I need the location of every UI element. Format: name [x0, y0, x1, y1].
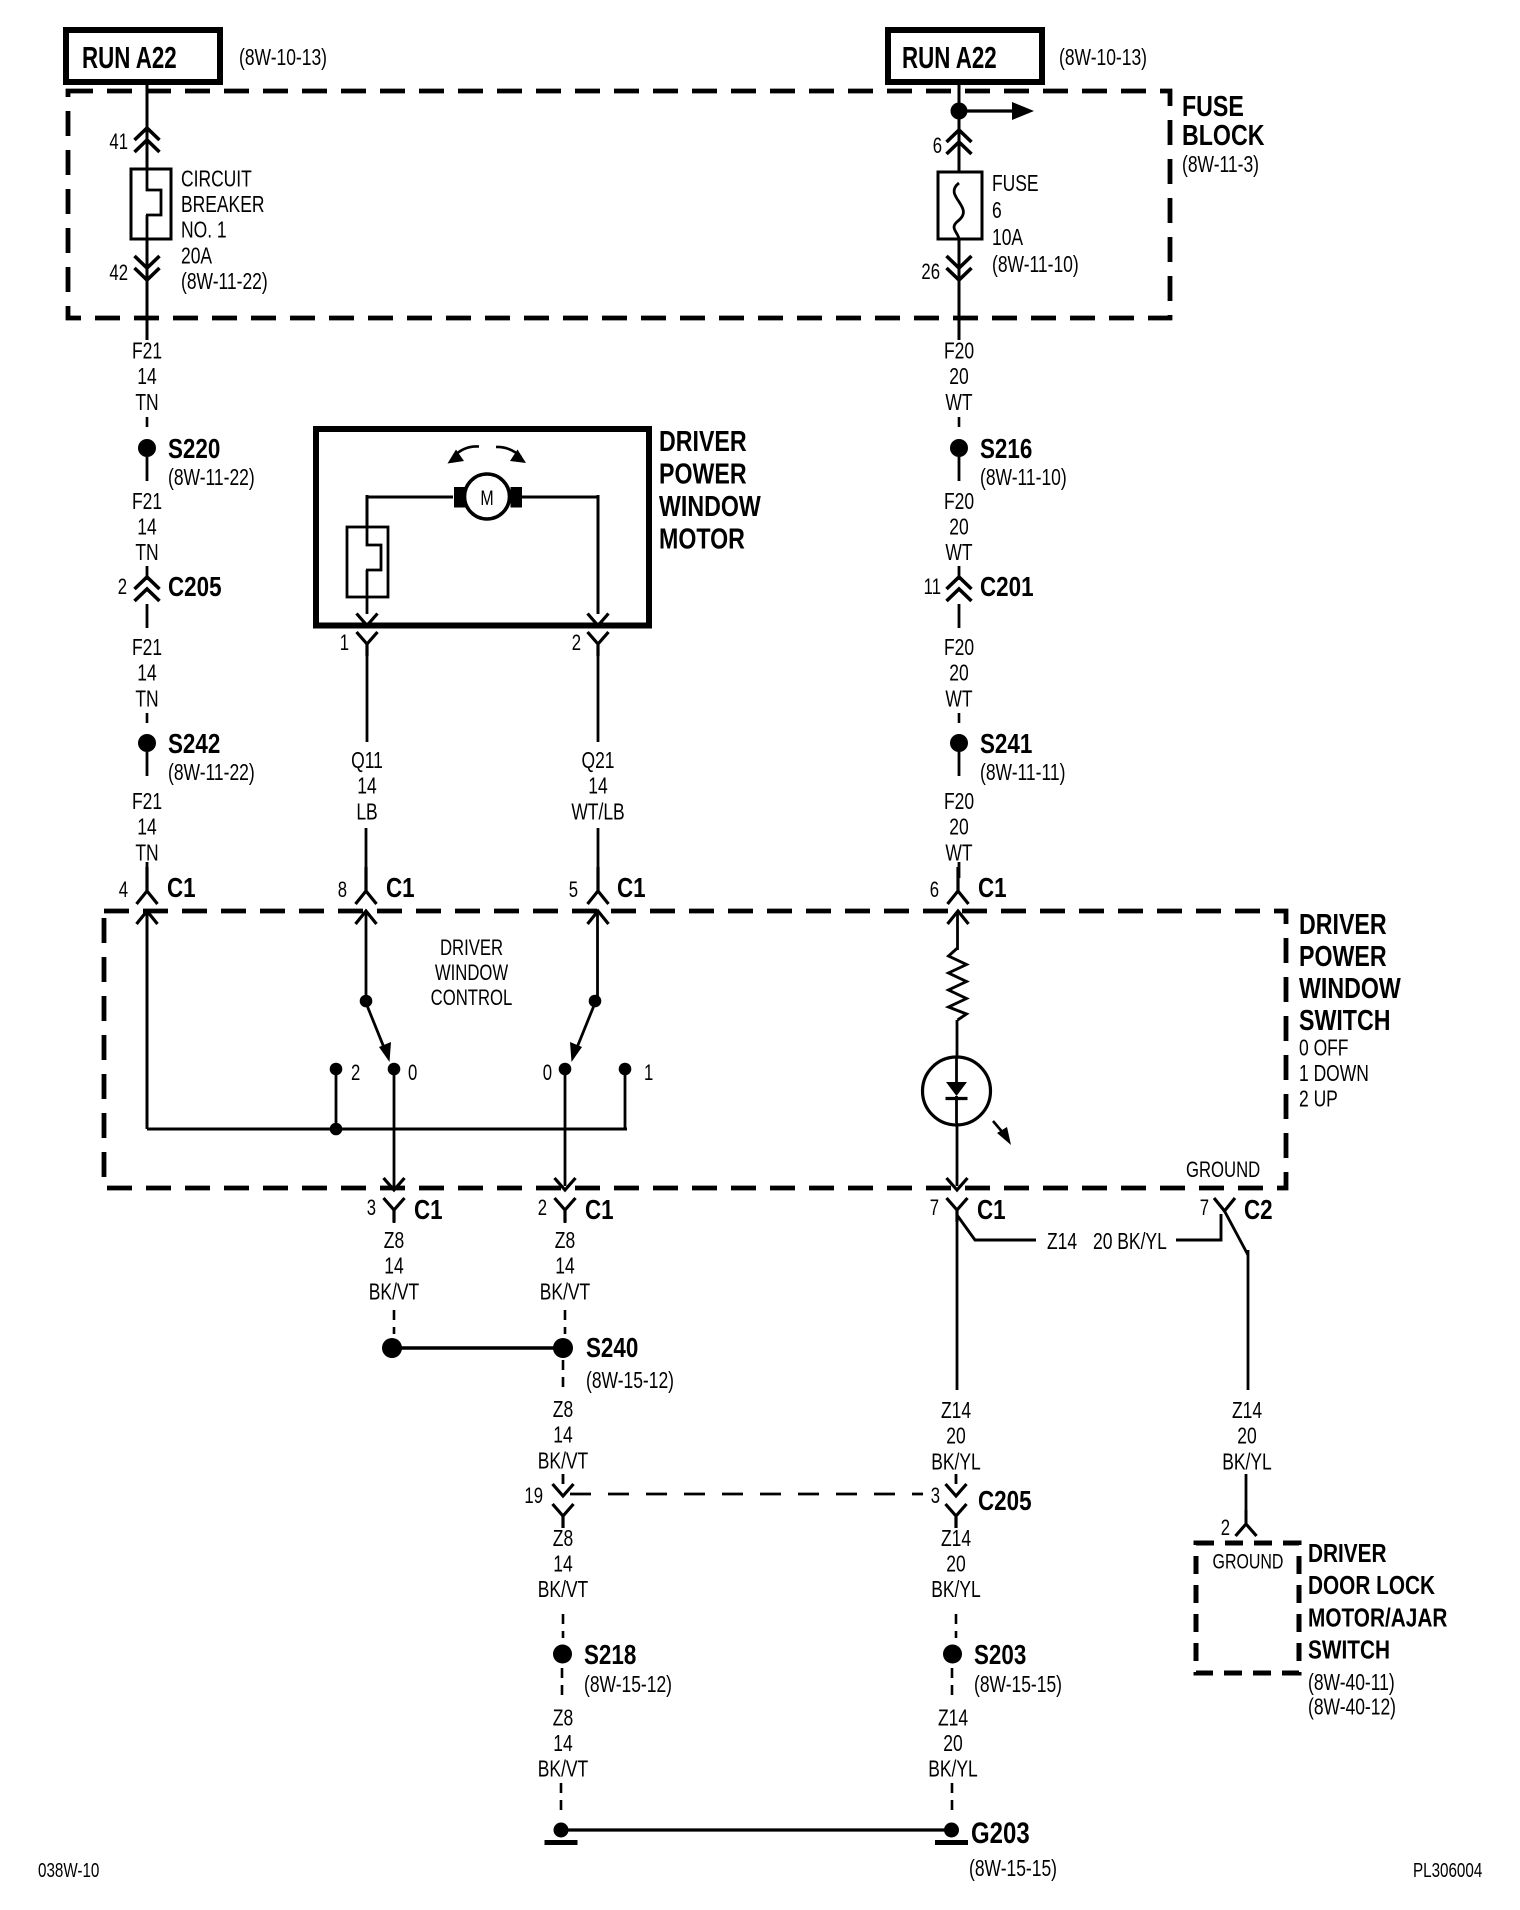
svg-text:F20: F20	[944, 339, 974, 364]
motor pin 1 arrowhead	[357, 614, 378, 626]
svg-text:S242: S242	[168, 729, 220, 760]
svg-text:GROUND: GROUND	[1186, 1158, 1260, 1183]
svg-text:RUN A22: RUN A22	[82, 40, 177, 74]
splice S240	[553, 1338, 573, 1358]
svg-text:(8W-15-12): (8W-15-12)	[586, 1369, 674, 1394]
motor brush left	[454, 487, 466, 508]
svg-text:BK/YL: BK/YL	[931, 1578, 981, 1603]
svg-text:C205: C205	[168, 572, 222, 603]
svg-text:(8W-11-22): (8W-11-22)	[181, 270, 268, 295]
wire pin8 to switch pole	[365, 911, 368, 1001]
connector C205 pin 2 chevrons	[135, 577, 160, 601]
splice S242	[138, 734, 156, 752]
svg-text:14: 14	[137, 662, 156, 687]
svg-text:2: 2	[1221, 1516, 1230, 1541]
connector C1 pin 8 fork	[356, 867, 377, 904]
svg-text:C1: C1	[617, 873, 646, 904]
switch pin 6 entry arrowhead	[948, 911, 969, 924]
connector C1 pin 2 fork	[555, 1198, 576, 1222]
svg-text:Z8: Z8	[553, 1398, 573, 1423]
junction dot on bus	[330, 1123, 343, 1136]
svg-text:MOTOR/AJAR: MOTOR/AJAR	[1308, 1603, 1447, 1632]
wire contact1 to bus	[624, 1069, 627, 1129]
switch pin 4 entry arrowhead	[137, 911, 158, 924]
wire above ground dot right	[951, 1783, 954, 1815]
svg-text:(8W-11-22): (8W-11-22)	[168, 466, 255, 491]
svg-text:F20: F20	[944, 636, 974, 661]
svg-text:2: 2	[538, 1196, 547, 1221]
svg-text:(8W-15-12): (8W-15-12)	[584, 1673, 672, 1698]
svg-text:LB: LB	[356, 800, 377, 825]
wire stub below S242	[146, 752, 149, 776]
svg-text:S241: S241	[980, 729, 1032, 760]
wire resistor to LED	[956, 1020, 959, 1058]
branch arrow to other circuits	[959, 109, 1014, 112]
svg-text:BK/YL: BK/YL	[931, 1450, 981, 1475]
svg-text:19: 19	[524, 1484, 543, 1509]
svg-text:S218: S218	[584, 1640, 636, 1671]
svg-text:1 DOWN: 1 DOWN	[1299, 1062, 1369, 1087]
node RUN A22 (right feed) box	[888, 30, 1042, 82]
svg-text:TN: TN	[135, 687, 158, 712]
svg-text:DRIVER: DRIVER	[1299, 907, 1387, 940]
switch blade down	[576, 1003, 595, 1050]
wire Z14 jumper right diagonal	[1176, 1214, 1221, 1240]
svg-text:038W-10: 038W-10	[38, 1859, 99, 1882]
wire dashed stub above S216	[958, 417, 961, 434]
svg-text:BK/VT: BK/VT	[369, 1280, 419, 1305]
connector C1 pin 4 fork	[137, 867, 158, 904]
switch pin 2 exit arrowhead	[555, 1178, 576, 1190]
connector C201 pin 11 chevrons	[947, 577, 972, 601]
wire below C201	[958, 604, 961, 628]
rotation arrow left	[453, 446, 479, 457]
svg-text:(8W-11-10): (8W-11-10)	[980, 466, 1067, 491]
svg-text:Z14: Z14	[1047, 1230, 1077, 1255]
wire contact0 to pin3	[393, 1069, 396, 1186]
svg-text:F20: F20	[944, 490, 974, 515]
wire contact0 to pin2	[564, 1069, 567, 1186]
svg-text:8: 8	[338, 878, 347, 903]
svg-text:0 OFF: 0 OFF	[1299, 1036, 1348, 1061]
svg-text:C2: C2	[1244, 1195, 1273, 1226]
svg-text:11: 11	[924, 575, 941, 600]
svg-text:6: 6	[992, 199, 1002, 224]
wire stub below S216	[958, 457, 961, 481]
svg-text:BK/YL: BK/YL	[1222, 1450, 1272, 1475]
wire above S203	[955, 1614, 958, 1638]
wire Z14 jumper left diagonal	[957, 1215, 1036, 1240]
svg-text:Z14: Z14	[938, 1706, 968, 1731]
switch pin 3 exit arrowhead	[384, 1178, 405, 1190]
svg-text:4: 4	[119, 878, 128, 903]
svg-text:3: 3	[931, 1484, 940, 1509]
switch pin 5 entry arrowhead	[588, 911, 609, 924]
wire below C205	[146, 604, 149, 628]
svg-text:BK/VT: BK/VT	[538, 1578, 588, 1603]
fuse block dashed outline	[68, 91, 1170, 318]
svg-text:7: 7	[1200, 1196, 1209, 1221]
svg-text:POWER: POWER	[1299, 939, 1387, 972]
splice S241	[950, 734, 968, 752]
svg-text:20: 20	[1237, 1425, 1256, 1450]
svg-text:DRIVER: DRIVER	[659, 424, 747, 457]
connector C205 pin 19 arrowhead	[553, 1484, 574, 1496]
svg-text:DOOR LOCK: DOOR LOCK	[1308, 1571, 1435, 1600]
wire above S218	[562, 1614, 565, 1638]
svg-text:20: 20	[949, 816, 968, 841]
wire Q11 lower	[365, 828, 368, 878]
connector C205 pin 3 fork	[946, 1504, 967, 1528]
motor brush right	[511, 487, 523, 508]
svg-text:Z8: Z8	[553, 1706, 573, 1731]
driver door lock dashed outline	[1196, 1543, 1299, 1673]
svg-text:S240: S240	[586, 1333, 638, 1364]
svg-text:C201: C201	[980, 572, 1034, 603]
wire pin5 to switch pole	[596, 911, 599, 1001]
contact 0 dot (left switch)	[388, 1063, 401, 1076]
svg-text:PL306004: PL306004	[1413, 1859, 1482, 1882]
switch pin 8 entry arrowhead	[356, 911, 377, 924]
wire C2 down to door lock	[1247, 1250, 1250, 1390]
svg-text:BLOCK: BLOCK	[1182, 118, 1264, 151]
connector C1 pin 6 fork	[948, 867, 969, 904]
svg-text:S203: S203	[974, 1640, 1026, 1671]
svg-text:WT/LB: WT/LB	[571, 800, 624, 825]
svg-text:C1: C1	[386, 873, 415, 904]
wire motor right brush down	[521, 496, 598, 499]
motor pin 2 fork	[588, 632, 609, 656]
connector C205 pin 3 arrowhead	[946, 1484, 967, 1496]
svg-text:20A: 20A	[181, 244, 212, 269]
wire above pin 3 C205	[955, 1474, 958, 1484]
wire breaker to fuse-block edge	[146, 239, 149, 340]
wire above pin 6 C1	[958, 862, 961, 878]
wire dashed stub below S240	[562, 1360, 565, 1392]
svg-text:41: 41	[109, 130, 128, 155]
contact 0 dot (right switch)	[559, 1063, 572, 1076]
wire above pin 4 C1	[146, 862, 149, 878]
svg-text:WINDOW: WINDOW	[1299, 971, 1401, 1004]
svg-text:(8W-15-15): (8W-15-15)	[974, 1673, 1062, 1698]
wire RUN A22 right down to fuse	[958, 82, 961, 190]
wire RUN A22 left to circuit breaker	[146, 82, 149, 170]
svg-text:14: 14	[553, 1552, 572, 1577]
svg-text:C205: C205	[978, 1486, 1032, 1517]
svg-text:WINDOW: WINDOW	[659, 489, 761, 522]
svg-text:C1: C1	[414, 1195, 443, 1226]
svg-text:F21: F21	[132, 790, 162, 815]
wire stub below S218	[561, 1668, 564, 1699]
svg-text:(8W-11-10): (8W-11-10)	[992, 253, 1079, 278]
wire stub below S241	[958, 752, 961, 776]
svg-text:NO. 1: NO. 1	[181, 219, 227, 244]
svg-text:Q21: Q21	[581, 749, 614, 774]
wire splice bus to S240	[392, 1346, 563, 1349]
svg-text:14: 14	[553, 1732, 572, 1757]
svg-text:F21: F21	[132, 339, 162, 364]
svg-text:TN: TN	[135, 541, 158, 566]
wire breaker to motor pin 1	[366, 597, 369, 614]
wire Q21 lower	[597, 828, 600, 878]
wire pin2 down	[564, 1220, 567, 1223]
circuit breaker CB1 body	[131, 169, 171, 239]
connector pin 42 chevrons	[135, 256, 160, 280]
switch pin 7 exit arrowhead	[947, 1178, 968, 1190]
splice S218	[553, 1645, 572, 1664]
svg-text:WT: WT	[945, 687, 972, 712]
svg-text:MOTOR: MOTOR	[659, 522, 745, 555]
svg-text:WT: WT	[945, 541, 972, 566]
svg-text:(8W-15-15): (8W-15-15)	[969, 1857, 1057, 1882]
svg-text:Z14: Z14	[1232, 1399, 1262, 1424]
svg-text:BK/VT: BK/VT	[538, 1449, 588, 1474]
wire above ground dot left	[560, 1783, 563, 1815]
svg-text:FUSE: FUSE	[992, 172, 1039, 197]
svg-text:20: 20	[943, 1732, 962, 1757]
wire Q21 upper	[597, 656, 600, 742]
svg-text:Z8: Z8	[553, 1527, 573, 1552]
LED emission arrow	[993, 1121, 1004, 1134]
driver power window motor box	[316, 429, 649, 626]
svg-text:SWITCH: SWITCH	[1299, 1003, 1390, 1036]
svg-text:F21: F21	[132, 636, 162, 661]
svg-text:SWITCH: SWITCH	[1308, 1635, 1390, 1664]
svg-text:42: 42	[109, 261, 128, 286]
svg-text:14: 14	[384, 1255, 403, 1280]
svg-text:BK/YL: BK/YL	[928, 1758, 978, 1783]
svg-text:C1: C1	[977, 1195, 1006, 1226]
svg-text:Z14: Z14	[941, 1399, 971, 1424]
ground splice dot left	[554, 1823, 569, 1838]
svg-text:14: 14	[588, 775, 607, 800]
svg-text:20 BK/YL: 20 BK/YL	[1093, 1230, 1167, 1255]
connector C205 pin 19 fork	[553, 1504, 574, 1528]
svg-text:(8W-11-11): (8W-11-11)	[980, 761, 1065, 786]
svg-text:C1: C1	[978, 873, 1007, 904]
wire pin7 down	[956, 1222, 959, 1390]
connector pin 26 chevrons	[947, 256, 972, 280]
connector pin 41 chevrons	[135, 128, 160, 152]
svg-text:14: 14	[137, 365, 156, 390]
splice S203	[943, 1645, 962, 1664]
svg-text:14: 14	[137, 816, 156, 841]
svg-text:DRIVER: DRIVER	[440, 936, 503, 961]
svg-text:26: 26	[921, 260, 940, 285]
connector C1 pin 5 fork	[588, 867, 609, 904]
switch blade up/off	[366, 1003, 385, 1050]
svg-text:POWER: POWER	[659, 457, 747, 490]
svg-text:Z8: Z8	[555, 1229, 575, 1254]
wire switch common bus	[147, 1128, 627, 1131]
svg-text:20: 20	[946, 1425, 965, 1450]
wire stub below S203	[951, 1668, 954, 1699]
wire Q11 upper	[366, 656, 369, 742]
connector C1 pin 7 fork	[947, 1198, 968, 1222]
rotation arrow right	[496, 447, 521, 457]
svg-text:F20: F20	[944, 790, 974, 815]
wire above pin 19 C205	[562, 1474, 565, 1484]
svg-text:WINDOW: WINDOW	[435, 961, 509, 986]
LED indicator body	[923, 1057, 991, 1125]
wire dashed stub above S242	[146, 713, 149, 730]
svg-text:6: 6	[933, 134, 942, 159]
svg-text:C1: C1	[585, 1195, 614, 1226]
svg-text:(8W-40-11): (8W-40-11)	[1308, 1671, 1395, 1696]
svg-text:14: 14	[553, 1424, 572, 1449]
wire dashed C205 interface	[570, 1493, 923, 1496]
wire dashed stub above S240	[564, 1310, 567, 1334]
wire pin6 to resistor	[956, 911, 959, 950]
svg-text:F21: F21	[132, 490, 162, 515]
wire contact2 to bus	[335, 1069, 338, 1129]
svg-text:2: 2	[351, 1061, 360, 1086]
svg-text:GROUND: GROUND	[1213, 1549, 1284, 1573]
connector C1 pin 3 fork	[384, 1198, 405, 1222]
svg-text:CONTROL: CONTROL	[431, 986, 513, 1011]
svg-text:0: 0	[408, 1061, 417, 1086]
svg-text:(8W-11-3): (8W-11-3)	[1182, 153, 1259, 178]
svg-text:2 UP: 2 UP	[1299, 1087, 1338, 1112]
motor internal breaker body	[347, 527, 388, 597]
wire dashed stub above S240 left	[393, 1310, 396, 1334]
junction dot at fuse feed	[951, 103, 968, 120]
svg-text:14: 14	[357, 775, 376, 800]
svg-text:M: M	[480, 486, 493, 510]
svg-text:5: 5	[569, 878, 578, 903]
svg-text:20: 20	[949, 515, 968, 540]
svg-text:WT: WT	[945, 391, 972, 416]
svg-text:Q11: Q11	[351, 749, 383, 774]
door lock pin 2 fork	[1236, 1524, 1257, 1536]
contact 2 dot	[330, 1063, 343, 1076]
svg-text:BK/VT: BK/VT	[540, 1280, 590, 1305]
fuse F6 body	[938, 172, 982, 239]
svg-text:Z14: Z14	[941, 1527, 971, 1552]
svg-text:DRIVER: DRIVER	[1308, 1539, 1387, 1568]
svg-text:2: 2	[118, 575, 127, 600]
svg-text:(8W-10-13): (8W-10-13)	[1059, 46, 1147, 71]
splice S220	[138, 439, 156, 457]
contact 1 dot	[619, 1063, 632, 1076]
motor pin 1 fork	[357, 632, 378, 656]
wire ground bus	[561, 1828, 952, 1831]
switch pole dot (down)	[589, 995, 602, 1008]
wire LED to pin7	[956, 1123, 959, 1186]
motor pin 2 arrowhead	[588, 614, 609, 626]
svg-text:2: 2	[572, 631, 581, 656]
svg-text:6: 6	[930, 878, 939, 903]
wire stub below S220	[146, 457, 149, 481]
wire pin4 down inside switch	[146, 911, 149, 1129]
driver power window switch dashed outline	[104, 911, 1286, 1188]
svg-text:20: 20	[949, 365, 968, 390]
wire above C201	[958, 566, 961, 580]
wire motor left brush to breaker	[367, 496, 453, 499]
svg-text:(8W-11-22): (8W-11-22)	[168, 761, 255, 786]
wire above door lock pin 2	[1245, 1474, 1248, 1512]
svg-text:20: 20	[946, 1552, 965, 1577]
wire dashed stub above S241	[958, 713, 961, 730]
svg-text:S220: S220	[168, 434, 220, 465]
wire fuse to fuse-block edge	[958, 239, 961, 340]
svg-text:7: 7	[930, 1196, 939, 1221]
svg-text:3: 3	[367, 1196, 376, 1221]
svg-text:CIRCUIT: CIRCUIT	[181, 167, 252, 192]
svg-text:1: 1	[340, 631, 349, 656]
svg-text:(8W-40-12): (8W-40-12)	[1308, 1695, 1396, 1720]
svg-text:20: 20	[949, 662, 968, 687]
svg-text:BREAKER: BREAKER	[181, 193, 264, 218]
svg-text:TN: TN	[135, 391, 158, 416]
switch pole dot (up/off)	[360, 995, 373, 1008]
splice dot left of S240	[382, 1338, 402, 1358]
svg-text:14: 14	[555, 1255, 574, 1280]
svg-text:C1: C1	[167, 873, 196, 904]
svg-text:BK/VT: BK/VT	[538, 1758, 588, 1783]
ground G203 dot	[944, 1823, 959, 1838]
svg-text:G203: G203	[971, 1815, 1030, 1849]
node RUN A22 (left feed) box	[66, 30, 220, 82]
svg-text:S216: S216	[980, 434, 1032, 465]
svg-text:Z8: Z8	[384, 1229, 404, 1254]
svg-text:(8W-10-13): (8W-10-13)	[239, 46, 327, 71]
svg-text:RUN A22: RUN A22	[902, 40, 997, 74]
wire pin3 down	[393, 1220, 396, 1223]
wire above C205	[146, 566, 149, 580]
connector pin 6 chevrons	[947, 130, 972, 154]
motor M1 body	[465, 474, 510, 519]
splice S216	[950, 439, 968, 457]
resistor R1	[949, 948, 967, 1020]
svg-text:10A: 10A	[992, 226, 1023, 251]
connector C2 pin 7 fork	[1214, 1198, 1235, 1211]
svg-text:0: 0	[543, 1061, 552, 1086]
svg-text:1: 1	[644, 1061, 653, 1086]
wire dashed stub above S220	[146, 417, 149, 434]
svg-text:14: 14	[137, 515, 156, 540]
